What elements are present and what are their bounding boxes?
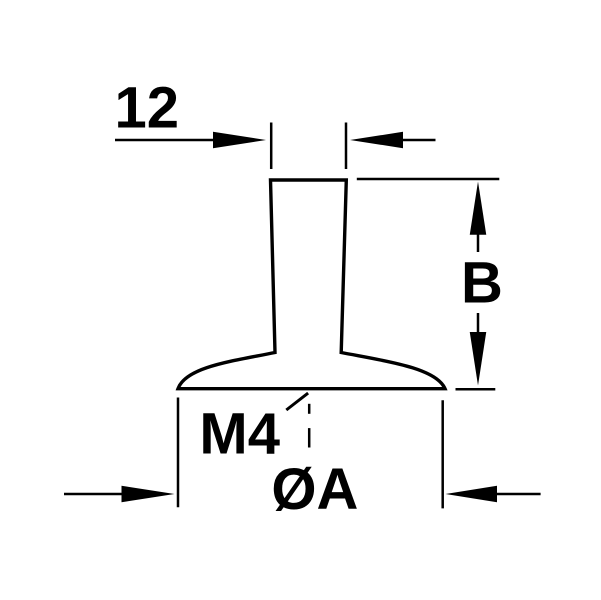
arrowhead left-pointing (OA right) (446, 486, 498, 502)
centerline dash 1 (308, 404, 311, 414)
extension line right of foot (441, 400, 444, 508)
dimension line left (OA) (64, 493, 126, 496)
extension line right of stem (345, 123, 348, 170)
arrowhead left-pointing (12 right) (350, 132, 403, 148)
dimension line left (12) (115, 139, 218, 142)
leader line M4 (286, 393, 308, 410)
B dimension down arrow (470, 332, 487, 386)
svg-text:12: 12 (115, 76, 180, 141)
wire tail of up arrow (477, 234, 480, 252)
wire tail of down arrow (477, 313, 480, 332)
extension line left of foot (177, 398, 180, 508)
dimension line right (12) (403, 139, 436, 142)
centerline dash 2 (308, 428, 311, 447)
svg-text:M4: M4 (199, 401, 280, 466)
svg-text:ØA: ØA (271, 457, 358, 522)
B dimension up arrow (470, 182, 487, 235)
extension line foot bottom to B (456, 388, 496, 391)
knob outline (178, 180, 445, 389)
dimension line right (OA) (497, 493, 541, 496)
arrowhead right-pointing (OA left) (122, 486, 175, 502)
arrowhead right-pointing (12 left) (213, 132, 266, 148)
extension line stem top to B (357, 178, 500, 181)
extension line left of stem (270, 123, 273, 170)
svg-text:B: B (461, 251, 503, 316)
